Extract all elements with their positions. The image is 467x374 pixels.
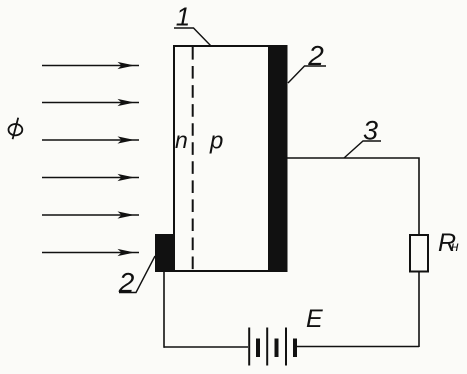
wire arrow 6 (light ray) xyxy=(42,249,139,256)
svg-text:n: n xyxy=(175,127,188,153)
svg-text:1: 1 xyxy=(176,2,190,32)
svg-text:2: 2 xyxy=(118,267,135,298)
wire 3 (top output wire) xyxy=(286,158,419,234)
wire arrow 3 (light ray) xyxy=(42,136,139,143)
wire bottom left xyxy=(164,346,248,348)
wire left vertical xyxy=(163,271,165,348)
node p-n junction (dashed line) xyxy=(192,47,194,271)
label 2 bottom (with leader) xyxy=(118,256,155,298)
wire arrow 5 (light ray) xyxy=(42,211,139,218)
electrode 2 (right contact plate) xyxy=(268,45,288,272)
wire arrow 1 (light ray) xyxy=(42,62,139,69)
label 2 top (with leader) xyxy=(288,40,326,83)
svg-text:p: p xyxy=(209,128,223,155)
wire arrow 2 (light ray) xyxy=(42,99,139,106)
label RH xyxy=(438,229,459,257)
wire arrow 4 (light ray) xyxy=(42,174,139,181)
svg-text:н: н xyxy=(451,238,459,254)
wire right vertical below resistor xyxy=(418,272,420,347)
battery E (3 cells) xyxy=(248,328,297,366)
node Phi (light flux symbol) xyxy=(9,118,23,140)
label 3 (with leader) xyxy=(344,116,381,159)
svg-text:E: E xyxy=(306,305,323,333)
resistor RH xyxy=(410,235,428,272)
label 1 (with leader) xyxy=(174,2,211,47)
semiconductor body (photocell crystal) xyxy=(174,46,287,271)
wire bottom right xyxy=(297,346,419,348)
electrode 2 (bottom-left contact plate) xyxy=(155,234,173,272)
